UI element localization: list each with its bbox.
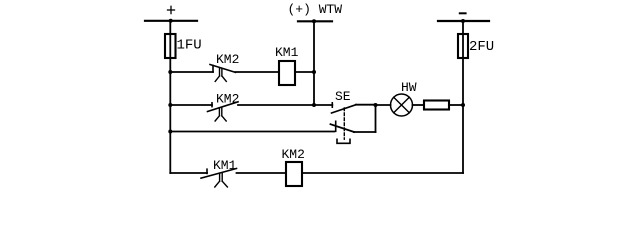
wire: row3 from SE blade right to vertical riser (354, 131, 376, 133)
contact KM1 NO (bottom): tick (206, 169, 208, 173)
svg-text:KM2: KM2 (216, 52, 239, 67)
wire: row2 left segment (170, 104, 212, 106)
wire: junction to lamp (376, 104, 391, 106)
node: right spine lamp-row junction (461, 103, 465, 107)
svg-text:2FU: 2FU (469, 39, 494, 55)
node: left spine row3 junction (168, 130, 172, 134)
left supply terminal bar (+) (145, 20, 197, 22)
node: left spine row1 junction (168, 70, 172, 74)
switch SE upper NO contact: blade (332, 105, 357, 113)
wire: bottom row left segment (170, 172, 207, 174)
minus sign of right supply terminal (460, 12, 466, 14)
fuse 1FU (165, 34, 176, 58)
contact KM2 NC (row1): actuator fork (215, 68, 226, 82)
contact KM1 NO (bottom): blade (201, 169, 237, 179)
wire: left spine from fuse 1FU down to bottom row (169, 58, 171, 173)
contact KM2 NO (row2): tick (211, 103, 213, 107)
lamp HW circle (391, 94, 413, 116)
WTW terminal bar (298, 20, 332, 22)
wire: lamp to resistor (413, 104, 425, 106)
svg-text:(+) WTW: (+) WTW (288, 2, 343, 17)
wire: row1 from coil to WTW vertical (295, 71, 314, 73)
contact KM2 NC (row1): blade (210, 65, 236, 73)
wire: row2 from contact to SE (238, 104, 332, 106)
switch SE lower NC contact: blade (331, 124, 355, 132)
wire: left terminal down to fuse 1FU (169, 21, 171, 58)
coil KM1 (279, 61, 295, 85)
node: WTW terminal junction (312, 19, 316, 23)
wire: row3 from left spine to SE lower contact (170, 131, 334, 133)
plus sign of left supply terminal (168, 6, 175, 13)
wire: bottom row from coil to right spine (302, 172, 463, 174)
wire: riser from row3 up to SE/lamp junction (375, 105, 377, 132)
coil KM2 (286, 162, 302, 186)
wire: bottom row between contact and coil KM2 (237, 172, 287, 174)
node: left spine row2 junction (168, 103, 172, 107)
right supply terminal bar (-) (438, 20, 489, 22)
node: row2 / WTW vertical junction (312, 103, 316, 107)
lamp HW cross (394, 97, 410, 113)
contact KM1 NO (bottom): actuator fork (215, 173, 228, 187)
wire: WTW vertical down to row2 (313, 21, 315, 105)
contact KM2 NO (row2): actuator fork (215, 107, 226, 121)
svg-text:1FU: 1FU (177, 38, 202, 54)
switch SE upper NO contact: tick (331, 103, 333, 107)
resistor R (424, 101, 449, 110)
switch SE: pushbutton actuator bracket (337, 139, 350, 143)
wire: right terminal down to fuse 2FU (462, 21, 464, 58)
wire: row1 left segment (170, 71, 213, 73)
wire: row1 between contact and coil KM1 (236, 71, 280, 73)
wire: row2 from SE blade to lamp junction (356, 104, 376, 106)
wire: resistor to right spine (449, 104, 463, 106)
fuse 2FU (458, 34, 468, 58)
node: row1 / WTW vertical junction (312, 70, 316, 74)
svg-text:HW: HW (401, 80, 417, 95)
switch SE: dashed mechanical linkage (343, 108, 345, 139)
node: left terminal junction (169, 19, 173, 23)
contact KM2 NO (row2): blade (208, 102, 239, 112)
wire: right spine from fuse 2FU down to bottom row (462, 58, 464, 173)
contact KM2 NC (row1): tick (212, 66, 214, 73)
switch SE lower NC contact: tick (335, 121, 337, 131)
node: SE/lamp junction (374, 103, 378, 107)
svg-text:KM1: KM1 (275, 45, 299, 60)
svg-text:KM2: KM2 (282, 147, 305, 162)
node: right terminal junction (461, 19, 465, 23)
svg-text:SE: SE (335, 89, 351, 104)
